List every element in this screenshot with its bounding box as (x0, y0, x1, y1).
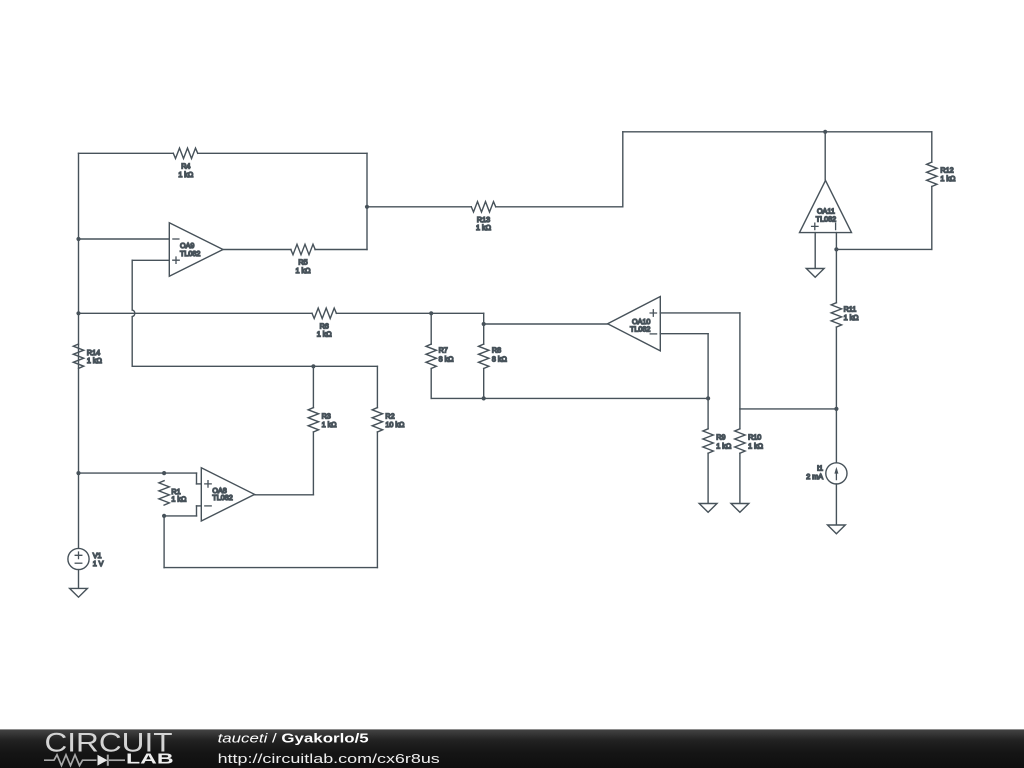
wire R1 bottom to OA8 minus (164, 515, 196, 517)
node junction OA11 output (823, 130, 827, 134)
svg-text:1 kΩ: 1 kΩ (716, 441, 732, 450)
resistor R12 1 k&#937; (927, 162, 937, 186)
wire R9 bottom lead (707, 453, 709, 503)
node junction R1 bottom (162, 514, 166, 518)
wire R6 row left of zigzag (79, 312, 313, 314)
wire OA11 plus input to ground (814, 233, 816, 269)
resistor R14 1 k&#937; (73, 344, 83, 368)
svg-text:TL082: TL082 (630, 324, 650, 333)
wire top net horizontal (623, 131, 932, 133)
resistor R4 1 k&#937; (173, 148, 197, 158)
svg-text:1 kΩ: 1 kΩ (844, 313, 860, 322)
svg-text:R7: R7 (439, 345, 448, 354)
wire R8 top lead (483, 324, 485, 344)
wire top R4 row right segment (198, 152, 367, 154)
ground I1 (828, 525, 846, 534)
wire R13 row right (496, 206, 623, 208)
svg-text:10 kΩ: 10 kΩ (385, 420, 405, 429)
wire OA10 output row (484, 323, 608, 325)
svg-text:LAB: LAB (126, 751, 174, 767)
op-amp OA10 TL082 (608, 297, 661, 351)
wire R6 row right of zigzag (336, 312, 483, 314)
op-amp OA11 TL082 (800, 180, 852, 232)
svg-text:8 kΩ: 8 kΩ (439, 355, 455, 364)
node junction R9 top row (706, 396, 710, 400)
node junction R13 branch (365, 205, 369, 209)
node junction R8 top / OA10 out (482, 322, 486, 326)
wire OA10 minus vertical to R9 (707, 334, 709, 429)
wire OA9 output (223, 249, 291, 251)
svg-text:R2: R2 (385, 411, 394, 420)
current source I1 2 mA (826, 463, 847, 484)
node junction OA9 minus (76, 237, 80, 241)
resistor R7 8 k&#937; (426, 344, 436, 368)
wire R10 row (740, 408, 837, 410)
wire OA9 noninverting input horizontal (132, 259, 169, 261)
node junction R11/I1/R10 row (834, 407, 838, 411)
logo resistor-diode glyph (44, 755, 125, 766)
wire OA9 plus vertical lower (131, 317, 133, 367)
resistor R2 10 k&#937; (372, 408, 382, 432)
resistor R9 1 k&#937; (703, 429, 713, 453)
svg-text:tauceti / Gyakorlo/5: tauceti / Gyakorlo/5 (218, 732, 369, 746)
svg-text:http://circuitlab.com/cx6r8us: http://circuitlab.com/cx6r8us (218, 752, 440, 766)
wire OA10 plus input horizontal (660, 312, 740, 314)
wire R11 bottom to I1 (835, 327, 837, 463)
wire R1 row (79, 472, 197, 474)
resistor R11 1 k&#937; (831, 303, 841, 327)
wire OA8 output (255, 494, 314, 496)
node junction R8 bottom (482, 396, 486, 400)
wire right vertical of R4 loop (366, 153, 368, 249)
ground R10 (731, 504, 749, 513)
wire R2 bottom lead (376, 432, 378, 568)
wire hop arc (132, 310, 135, 317)
wire vertical up to top net (622, 132, 624, 207)
wire R2 top lead (376, 366, 378, 407)
resistor R10 1 k&#937; (735, 429, 745, 453)
svg-text:1 kΩ: 1 kΩ (317, 330, 333, 339)
svg-text:1 kΩ: 1 kΩ (296, 266, 312, 275)
wire R7 top lead (430, 313, 432, 344)
svg-text:1 kΩ: 1 kΩ (178, 170, 194, 179)
op-amp OA9 TL082 (169, 223, 223, 276)
svg-text:8 kΩ: 8 kΩ (492, 355, 508, 364)
wire R10 bottom lead (739, 453, 741, 503)
ground R9 (699, 504, 717, 513)
node junction R1 row on left rail (76, 471, 80, 475)
svg-text:R10: R10 (748, 433, 761, 442)
wire top R4 row left segment (79, 152, 174, 154)
wire R13 row left (367, 206, 471, 208)
wire R8 bottom lead (483, 369, 485, 399)
node junction R3 top (311, 364, 315, 368)
wire I1 bottom to ground (835, 484, 837, 525)
svg-text:1 kΩ: 1 kΩ (322, 420, 338, 429)
wire OA10 plus vertical to R10 (739, 313, 741, 429)
svg-text:R9: R9 (716, 433, 725, 442)
footer bar (0, 729, 1024, 768)
resistor R1 1 k&#937; (159, 481, 169, 505)
svg-text:R8: R8 (492, 345, 501, 354)
svg-text:R12: R12 (940, 165, 953, 174)
wire R12 top lead (931, 132, 933, 162)
wire bottom mid row (431, 397, 708, 399)
node junction left rail R6 row (76, 311, 80, 315)
node junction R7 top (429, 311, 433, 315)
node junction OA11 minus net (834, 247, 838, 251)
resistor R5 1 k&#937; (291, 244, 315, 254)
wire step to OA8 plus (196, 473, 198, 484)
wire left vertical rail (78, 153, 80, 548)
wire R7 bottom lead (430, 369, 432, 399)
svg-text:TL082: TL082 (212, 493, 232, 502)
svg-text:1 kΩ: 1 kΩ (87, 356, 103, 365)
wire corner down to OA10 out row (483, 313, 485, 324)
resistor R8 8 k&#937; (479, 344, 489, 368)
svg-text:TL082: TL082 (816, 214, 836, 223)
svg-text:1 V: 1 V (93, 559, 104, 568)
wire R5 to vertical (315, 249, 367, 251)
resistor R13 1 k&#937; (471, 202, 495, 212)
wire OA9 plus vertical upper (hop over R6 row) (131, 260, 133, 310)
wire R12 bottom row (836, 248, 931, 250)
svg-text:1 kΩ: 1 kΩ (171, 495, 187, 504)
svg-text:TL082: TL082 (180, 249, 200, 258)
resistor R3 1 k&#937; (308, 408, 318, 432)
ground OA11 plus (806, 269, 824, 278)
voltage source V1 1 V (68, 548, 89, 569)
node junction R1 top (162, 471, 166, 475)
wire R3/R2 top row (132, 365, 377, 367)
ground V1 (70, 588, 88, 597)
wire feedback down from R1 bottom (163, 516, 165, 568)
svg-text:R3: R3 (322, 411, 331, 420)
svg-text:1 kΩ: 1 kΩ (476, 223, 492, 232)
wire OA11 output vertical (824, 132, 826, 181)
svg-text:2 mA: 2 mA (806, 472, 823, 481)
wire V1 to ground (78, 570, 80, 589)
svg-text:1 kΩ: 1 kΩ (748, 441, 764, 450)
wire OA11 minus lead down (835, 233, 837, 303)
wire R12 bottom lead (931, 187, 933, 250)
op-amp OA8 TL082 (201, 468, 254, 521)
wire OA9 inverting input (79, 238, 170, 240)
wire R3 bottom lead (312, 432, 314, 495)
svg-text:1 kΩ: 1 kΩ (940, 174, 956, 183)
wire feedback bottom row (164, 567, 377, 569)
wire R3 top lead (312, 366, 314, 407)
wire OA10 minus input horizontal (660, 333, 708, 335)
resistor R6 1 k&#937; (312, 308, 336, 318)
